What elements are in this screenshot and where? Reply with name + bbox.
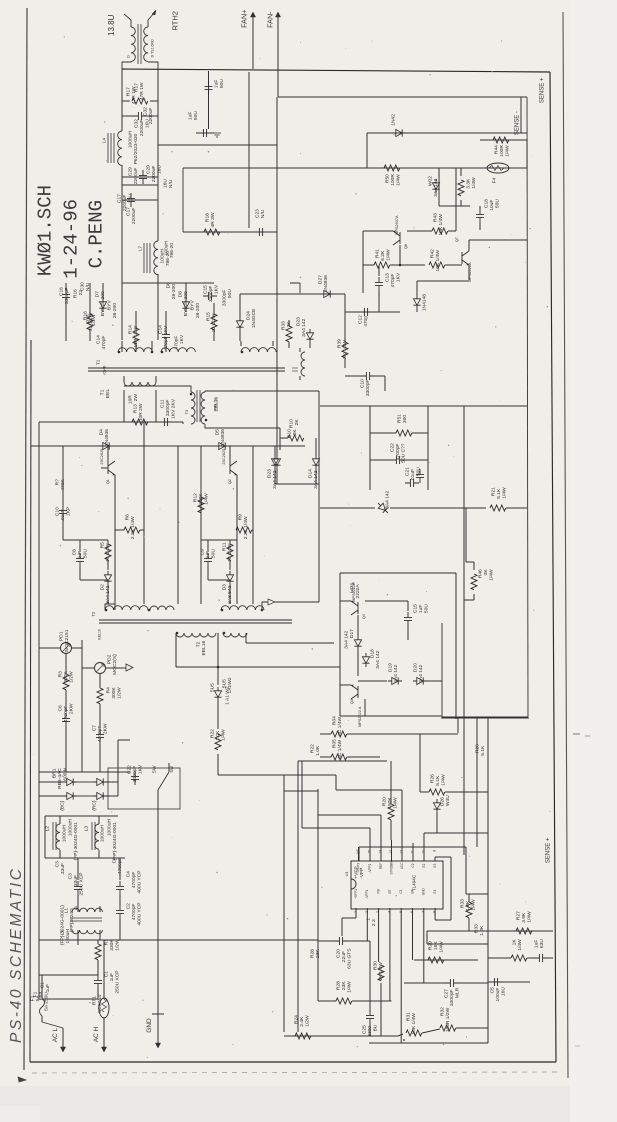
svg-text:UCC: UCC <box>400 862 404 870</box>
svg-text:1/2W: 1/2W <box>115 939 121 951</box>
svg-text:T1: T1 <box>95 359 100 365</box>
svg-text:.33uF: .33uF <box>60 863 66 876</box>
svg-text:1/4W: 1/4W <box>441 774 447 786</box>
svg-text:N/U: N/U <box>260 209 266 218</box>
svg-text:5U5: 5U5 <box>210 683 216 692</box>
svg-text:100uH: 100uH <box>65 929 71 944</box>
svg-text:R27: R27 <box>516 911 522 920</box>
svg-text:(C)4B: (C)4B <box>103 365 107 375</box>
svg-text:C6: C6 <box>58 705 64 712</box>
svg-text:C29: C29 <box>146 165 152 174</box>
svg-text:EEL16: EEL16 <box>214 397 220 412</box>
svg-text:16U: 16U <box>128 194 134 203</box>
svg-text:D14: D14 <box>308 469 314 478</box>
svg-text:C1: C1 <box>104 971 110 978</box>
svg-text:C2: C2 <box>126 903 132 910</box>
svg-text:470pF: 470pF <box>101 336 107 350</box>
svg-text:4700pF: 4700pF <box>131 904 137 921</box>
svg-text:R28: R28 <box>310 949 316 958</box>
svg-text:1/2W: 1/2W <box>305 1015 311 1027</box>
svg-text:1000uH: 1000uH <box>107 819 113 837</box>
svg-text:6: 6 <box>410 911 414 913</box>
svg-text:2200uF: 2200uF <box>131 208 137 225</box>
svg-text:2: 2 <box>365 911 369 913</box>
svg-text:3.3K: 3.3K <box>466 178 472 189</box>
svg-text:6.2K: 6.2K <box>380 250 386 261</box>
svg-text:470pF: 470pF <box>390 274 396 288</box>
svg-text:16U: 16U <box>501 987 507 996</box>
svg-text:300K: 300K <box>63 671 69 683</box>
svg-text:2K: 2K <box>294 419 300 426</box>
svg-text:1/4W: 1/4W <box>386 249 392 261</box>
svg-text:1000uH: 1000uH <box>62 825 68 843</box>
svg-text:1N4936: 1N4936 <box>323 275 329 292</box>
svg-text:R26: R26 <box>430 774 436 783</box>
svg-text:3A4 142: 3A4 142 <box>301 318 307 337</box>
svg-text:3300pF: 3300pF <box>132 766 138 783</box>
svg-text:C5: C5 <box>490 987 496 994</box>
svg-text:D8: D8 <box>178 291 184 298</box>
svg-text:(BC): (BC) <box>60 800 66 810</box>
svg-text:RTH2: RTH2 <box>171 11 180 30</box>
svg-text:3A4 142: 3A4 142 <box>375 650 381 669</box>
svg-text:9: 9 <box>433 850 437 852</box>
svg-text:PD2: PD2 <box>107 654 113 664</box>
svg-text:.22uF: .22uF <box>341 951 347 964</box>
svg-text:R21: R21 <box>491 487 497 496</box>
svg-text:4: 4 <box>387 911 391 913</box>
svg-text:100uF: 100uF <box>495 988 501 1002</box>
svg-text:50U: 50U <box>227 289 233 298</box>
svg-text:5.1K: 5.1K <box>435 775 441 786</box>
svg-text:.1uF: .1uF <box>109 973 115 983</box>
svg-text:R20: R20 <box>382 797 388 806</box>
svg-text:L3: L3 <box>84 826 90 832</box>
svg-text:R28: R28 <box>336 981 342 990</box>
svg-text:1/4W: 1/4W <box>517 939 523 951</box>
svg-text:786-20: 786-20 <box>165 251 171 267</box>
svg-text:2.4K: 2.4K <box>299 1016 305 1027</box>
svg-text:1/4W: 1/4W <box>527 911 533 923</box>
svg-text:.33uF: .33uF <box>73 875 79 888</box>
svg-text:2SC2625: 2SC2625 <box>222 449 226 465</box>
svg-text:C12: C12 <box>358 315 364 324</box>
svg-text:3: 3 <box>376 911 380 913</box>
svg-text:3300pF: 3300pF <box>208 286 214 303</box>
svg-text:D8: D8 <box>166 282 172 289</box>
svg-text:3A4 142: 3A4 142 <box>393 664 399 683</box>
svg-text:100R: 100R <box>390 174 396 186</box>
svg-text:D17: D17 <box>349 629 355 638</box>
svg-text:300: 300 <box>402 415 408 423</box>
svg-text:R51: R51 <box>397 414 403 423</box>
svg-text:3A4 142: 3A4 142 <box>385 490 391 509</box>
svg-text:3.9K: 3.9K <box>521 912 527 923</box>
svg-text:AC L: AC L <box>52 1027 59 1042</box>
svg-text:1/4W: 1/4W <box>471 177 477 189</box>
svg-text:28-200: 28-200 <box>195 303 201 319</box>
svg-text:BR1: BR1 <box>52 768 58 778</box>
svg-text:1.0K: 1.0K <box>315 745 321 756</box>
svg-text:-VFP: -VFP <box>359 868 365 879</box>
svg-text:MLR: MLR <box>455 987 461 998</box>
svg-text:10 1/4W: 10 1/4W <box>227 543 233 562</box>
svg-text:1/2W: 1/2W <box>91 314 97 326</box>
svg-text:R14: R14 <box>128 325 134 334</box>
svg-text:R39: R39 <box>337 339 343 348</box>
svg-text:R33: R33 <box>281 321 287 330</box>
svg-text:R30: R30 <box>373 961 379 970</box>
svg-text:BU: BU <box>373 1024 379 1031</box>
svg-text:R10: R10 <box>289 419 295 428</box>
svg-text:R5: R5 <box>100 542 106 549</box>
svg-text:1/4W: 1/4W <box>347 981 353 993</box>
svg-text:14: 14 <box>379 850 383 854</box>
svg-text:D7: D7 <box>95 291 101 298</box>
svg-text:50U: 50U <box>424 604 430 613</box>
svg-text:1: 1 <box>366 918 372 921</box>
svg-text:C2: C2 <box>411 863 415 867</box>
svg-text:RT1: RT1 <box>92 996 98 1005</box>
svg-text:3300pF: 3300pF <box>64 288 70 305</box>
svg-text:MOC2(S): MOC2(S) <box>112 654 118 675</box>
svg-text:MOC2151: MOC2151 <box>64 629 70 652</box>
svg-text:5: 5 <box>399 911 403 913</box>
svg-text:Q4: Q4 <box>362 614 366 619</box>
svg-text:50U: 50U <box>495 199 501 208</box>
svg-text:FAN-: FAN- <box>265 11 274 28</box>
svg-text:SW: SW <box>169 766 174 773</box>
svg-text:D27: D27 <box>318 275 324 284</box>
svg-text:(FP)3024G: (FP)3024G <box>69 908 75 932</box>
svg-text:2W: 2W <box>133 394 139 402</box>
svg-text:4700pF: 4700pF <box>97 726 103 743</box>
svg-text:R4: R4 <box>106 687 112 694</box>
svg-text:1/4W: 1/4W <box>505 145 511 157</box>
svg-text:E1: E1 <box>433 889 437 893</box>
svg-text:R3: R3 <box>58 671 64 678</box>
svg-text:1/4W: 1/4W <box>489 569 495 581</box>
svg-text:1.0K: 1.0K <box>479 925 485 936</box>
svg-text:1/4W: 1/4W <box>221 729 227 741</box>
svg-text:PS-40 SCHEMATIC: PS-40 SCHEMATIC <box>8 866 25 1043</box>
svg-text:1KV: 1KV <box>179 334 185 344</box>
svg-text:W02: W02 <box>428 176 434 186</box>
svg-text:3300pF: 3300pF <box>222 290 228 307</box>
svg-text:PB: PB <box>377 889 381 893</box>
svg-text:2 3: 2 3 <box>371 919 377 926</box>
svg-text:D20: D20 <box>413 663 419 672</box>
svg-text:Q2: Q2 <box>228 479 232 484</box>
svg-text:1N4936: 1N4936 <box>220 429 226 446</box>
svg-text:P62/2023-020: P62/2023-020 <box>133 133 139 164</box>
svg-text:C22: C22 <box>127 765 133 774</box>
svg-text:C1: C1 <box>40 982 46 989</box>
svg-text:50U: 50U <box>219 79 225 88</box>
svg-text:R33: R33 <box>474 924 480 933</box>
svg-text:50U: 50U <box>83 549 89 558</box>
svg-text:1uF: 1uF <box>418 605 424 613</box>
svg-text:3K 1/4W: 3K 1/4W <box>342 340 348 359</box>
svg-text:10 1/4W: 10 1/4W <box>105 543 111 562</box>
svg-text:T3: T3 <box>184 409 189 414</box>
svg-text:C21: C21 <box>405 467 411 476</box>
svg-text:SCK054: SCK054 <box>97 995 103 1013</box>
svg-text:R31: R31 <box>406 1012 412 1021</box>
svg-text:1uF: 1uF <box>188 112 194 120</box>
svg-text:C.PENG: C.PENG <box>85 200 107 268</box>
svg-text:1uF: 1uF <box>214 80 220 88</box>
svg-text:C3: C3 <box>68 873 74 880</box>
svg-text:3300pF: 3300pF <box>449 990 455 1007</box>
svg-text:13: 13 <box>389 850 393 854</box>
svg-text:1KV: 1KV <box>214 284 220 294</box>
svg-text:23K: 23K <box>341 981 347 990</box>
svg-text:1/4W: 1/4W <box>393 797 399 809</box>
svg-text:4700pF: 4700pF <box>395 444 401 461</box>
svg-text:16U: 16U <box>163 179 169 188</box>
svg-text:D TS1.6RO: D TS1.6RO <box>151 39 155 57</box>
svg-text:3C 1/4W: 3C 1/4W <box>337 739 343 758</box>
svg-text:300K: 300K <box>111 687 117 699</box>
svg-text:R12: R12 <box>193 493 199 502</box>
svg-text:470p: 470p <box>363 316 369 327</box>
svg-text:8: 8 <box>433 911 437 913</box>
svg-text:5A: 5A <box>35 995 41 1002</box>
svg-text:L1: L1 <box>64 908 70 914</box>
svg-text:BT: BT <box>410 889 414 893</box>
svg-text:C15: C15 <box>413 604 419 613</box>
svg-text:100R: 100R <box>499 145 505 157</box>
svg-text:C9: C9 <box>200 549 206 556</box>
svg-text:1KV: 1KV <box>138 764 144 774</box>
svg-text:C4: C4 <box>112 857 118 864</box>
svg-text:1uF: 1uF <box>534 940 540 948</box>
svg-text:2KW: 2KW <box>69 703 75 714</box>
svg-text:100uH: 100uH <box>160 249 166 264</box>
svg-text:1N42: 1N42 <box>391 114 397 126</box>
svg-text:R04: R04 <box>332 716 338 725</box>
svg-text:R50: R50 <box>385 174 391 183</box>
svg-text:D23: D23 <box>296 317 302 326</box>
svg-text:(FP)-3024G-0001: (FP)-3024G-0001 <box>112 822 118 861</box>
svg-text:D4: D4 <box>99 429 105 436</box>
svg-text:T1: T1 <box>100 389 106 395</box>
svg-text:2K: 2K <box>292 429 298 436</box>
svg-text:C18: C18 <box>484 199 490 208</box>
svg-text:150K: 150K <box>387 797 393 809</box>
svg-text:D24: D24 <box>246 311 252 320</box>
svg-text:BYV: BYV <box>107 300 113 311</box>
svg-text:1N4936: 1N4936 <box>104 429 110 446</box>
svg-text:10uF: 10uF <box>489 200 495 211</box>
svg-text:3A4 142: 3A4 142 <box>433 178 439 197</box>
svg-text:MPS2907A: MPS2907A <box>395 215 399 235</box>
svg-text:R22: R22 <box>210 729 216 738</box>
svg-text:C32: C32 <box>134 119 140 128</box>
svg-text:2200uF: 2200uF <box>148 108 154 125</box>
svg-text:1/4W: 1/4W <box>204 493 210 505</box>
svg-text:1/4W: 1/4W <box>471 899 477 911</box>
svg-text:250U XCP: 250U XCP <box>79 872 85 895</box>
svg-text:12: 12 <box>400 850 404 854</box>
svg-text:4700pF: 4700pF <box>117 858 123 875</box>
svg-text:1N4GCE: 1N4GCE <box>251 308 257 328</box>
svg-text:50U: 50U <box>211 549 217 558</box>
svg-text:2200uF: 2200uF <box>139 120 145 137</box>
svg-text:47R 1W: 47R 1W <box>131 86 137 104</box>
svg-text:C29: C29 <box>128 167 134 176</box>
svg-text:1/4W: 1/4W <box>502 487 508 499</box>
svg-text:R44: R44 <box>494 145 500 154</box>
svg-text:1KV: 1KV <box>396 272 402 282</box>
svg-text:C13: C13 <box>385 273 391 282</box>
svg-text:C14: C14 <box>96 335 102 344</box>
svg-text:C23: C23 <box>255 209 261 218</box>
svg-text:F4: F4 <box>492 177 498 183</box>
svg-text:4700pF: 4700pF <box>63 706 69 723</box>
svg-text:C22: C22 <box>390 443 396 452</box>
svg-text:L2: L2 <box>45 826 51 832</box>
svg-text:2200uF: 2200uF <box>133 168 139 185</box>
svg-text:C8: C8 <box>72 549 78 556</box>
svg-text:R32: R32 <box>440 1007 446 1016</box>
svg-text:0K: 0K <box>483 569 489 576</box>
svg-text:7: 7 <box>421 911 425 913</box>
svg-text:400U YCP: 400U YCP <box>137 871 143 894</box>
svg-text:1KP: 1KP <box>66 507 72 516</box>
svg-text:C7: C7 <box>92 725 98 732</box>
svg-text:4R 3W: 4R 3W <box>210 212 216 227</box>
svg-text:R46: R46 <box>478 569 484 578</box>
svg-text:STROBN: STROBN <box>389 861 393 875</box>
svg-text:SENSE -: SENSE - <box>515 111 521 135</box>
svg-text:C3: C3 <box>55 861 61 868</box>
svg-text:+VFP1: +VFP1 <box>354 889 358 899</box>
svg-text:600W: 600W <box>63 768 69 781</box>
svg-text:28-200: 28-200 <box>171 284 177 300</box>
svg-text:R10: R10 <box>287 429 293 438</box>
svg-text:28-200: 28-200 <box>112 303 118 319</box>
svg-text:5.1K: 5.1K <box>480 745 486 756</box>
svg-text:1/2W: 1/2W <box>69 671 75 683</box>
svg-text:SW: SW <box>152 765 158 773</box>
svg-text:TL494C: TL494C <box>411 874 416 891</box>
svg-text:C11: C11 <box>160 399 166 408</box>
svg-text:MPS: MPS <box>350 582 356 593</box>
svg-text:63U GTS: 63U GTS <box>347 948 353 969</box>
svg-text:C17: C17 <box>126 207 132 216</box>
svg-text:EEL16: EEL16 <box>98 629 102 640</box>
svg-text:L1: L1 <box>60 930 66 936</box>
svg-text:63U: 63U <box>539 939 545 948</box>
svg-text:R17: R17 <box>126 87 132 96</box>
svg-text:C10: C10 <box>55 507 61 516</box>
svg-text:5U5: 5U5 <box>222 679 228 688</box>
svg-text:1/2W: 1/2W <box>117 687 123 699</box>
svg-text:R42: R42 <box>430 249 436 258</box>
svg-text:EEL16: EEL16 <box>201 641 207 656</box>
svg-text:R22: R22 <box>310 744 316 753</box>
svg-text:10K 1/4W: 10K 1/4W <box>435 250 441 272</box>
svg-text:D5: D5 <box>215 429 221 436</box>
svg-text:-VFP2: -VFP2 <box>368 864 372 873</box>
svg-text:GND: GND <box>146 1018 153 1033</box>
svg-text:1.0K: 1.0K <box>465 900 471 911</box>
svg-text:L7: L7 <box>137 245 142 251</box>
svg-text:400U YCP: 400U YCP <box>137 903 143 926</box>
svg-text:C16: C16 <box>59 287 65 296</box>
svg-text:16U: 16U <box>157 165 163 174</box>
svg-text:470K: 470K <box>60 479 66 491</box>
svg-text:D23: D23 <box>267 469 273 478</box>
svg-text:C1: C1 <box>399 889 403 893</box>
svg-text:C14: C14 <box>158 325 164 334</box>
svg-text:200K: 200K <box>198 493 204 505</box>
svg-text:+VFP: +VFP <box>354 866 360 878</box>
svg-text:N/U: N/U <box>85 282 91 291</box>
svg-text:1/4W: 1/4W <box>396 174 402 186</box>
svg-text:2200uF: 2200uF <box>151 166 157 183</box>
svg-text:3300: 3300 <box>367 1026 373 1037</box>
svg-text:R16: R16 <box>73 289 79 298</box>
svg-text:MPS2222A: MPS2222A <box>468 262 472 282</box>
svg-text:RB3-4AC: RB3-4AC <box>57 768 63 789</box>
svg-text:L4: L4 <box>101 137 106 143</box>
svg-text:D26: D26 <box>440 797 446 806</box>
svg-text:N/U: N/U <box>168 179 174 188</box>
svg-text:2.2K 1/4W: 2.2K 1/4W <box>243 516 249 539</box>
svg-text:MPS2222 A: MPS2222 A <box>358 706 362 727</box>
svg-text:13.8U: 13.8U <box>107 14 116 36</box>
svg-text:GND: GND <box>422 887 426 895</box>
svg-text:.01uF: .01uF <box>60 509 66 522</box>
svg-text:C20: C20 <box>336 949 342 958</box>
svg-text:1: 1 <box>354 911 358 913</box>
svg-text:KWØ1.SCH: KWØ1.SCH <box>34 185 56 276</box>
svg-text:470pF: 470pF <box>174 336 180 350</box>
svg-text:15: 15 <box>368 850 372 854</box>
svg-text:R41: R41 <box>375 249 381 258</box>
svg-text:F1: F1 <box>30 995 36 1001</box>
svg-text:4700pF: 4700pF <box>131 872 137 889</box>
svg-text:C32: C32 <box>143 107 149 116</box>
svg-text:U1: U1 <box>344 871 349 877</box>
svg-text:C4: C4 <box>126 871 132 878</box>
svg-text:1N4148: 1N4148 <box>422 294 428 311</box>
svg-text:C15: C15 <box>203 285 209 294</box>
svg-text:15K: 15K <box>433 941 439 950</box>
svg-text:R?: R? <box>55 479 61 486</box>
svg-text:C10: C10 <box>360 379 366 388</box>
svg-text:R11: R11 <box>222 542 228 551</box>
svg-text:R05: R05 <box>332 739 338 748</box>
svg-text:10K 1/4W: 10K 1/4W <box>438 214 444 236</box>
svg-text:-VFP1: -VFP1 <box>365 890 369 899</box>
svg-text:P16: P16 <box>86 314 92 323</box>
svg-text:W4U: W4U <box>445 795 451 806</box>
svg-text:EEL: EEL <box>105 389 111 399</box>
svg-text:2SC2625: 2SC2625 <box>100 449 104 465</box>
svg-text:R26: R26 <box>475 744 481 753</box>
svg-text:Q1: Q1 <box>106 479 110 484</box>
svg-text:R33: R33 <box>460 899 466 908</box>
svg-text:Q3: Q3 <box>350 699 354 704</box>
svg-text:R29: R29 <box>428 941 434 950</box>
svg-text:10R: 10R <box>128 395 134 404</box>
svg-text:R43: R43 <box>433 213 439 222</box>
svg-text:C25: C25 <box>362 1025 368 1034</box>
